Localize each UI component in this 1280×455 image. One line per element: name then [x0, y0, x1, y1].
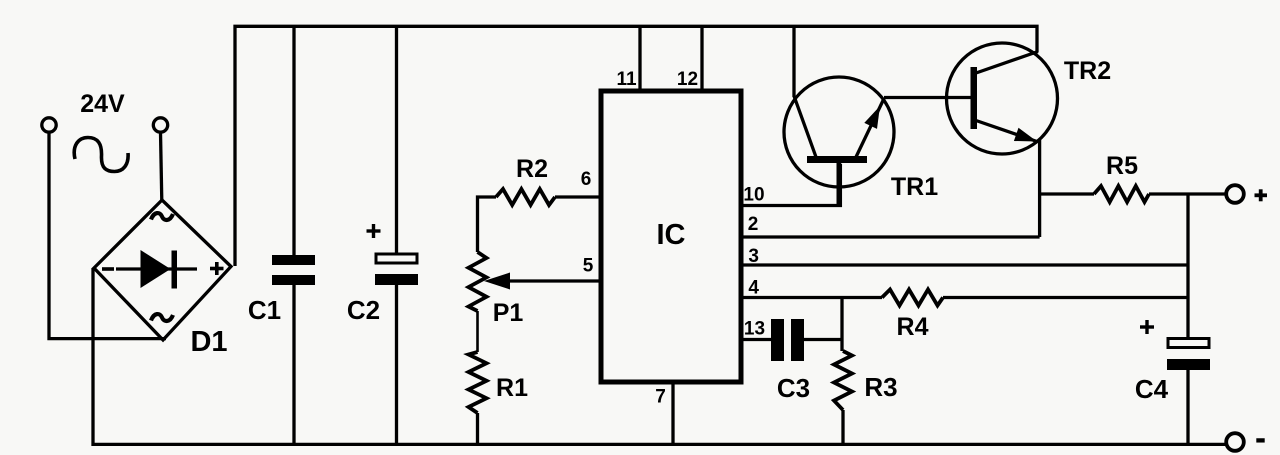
- svg-text:P1: P1: [493, 299, 524, 327]
- svg-text:R1: R1: [496, 374, 528, 402]
- svg-text:12: 12: [677, 69, 698, 90]
- svg-text:TR2: TR2: [1064, 57, 1111, 85]
- svg-text:11: 11: [616, 69, 637, 90]
- svg-text:R3: R3: [864, 372, 897, 402]
- svg-text:10: 10: [743, 185, 764, 206]
- svg-text:R5: R5: [1106, 152, 1138, 180]
- svg-text:R4: R4: [897, 313, 929, 341]
- svg-text:C2: C2: [347, 295, 380, 325]
- svg-text:4: 4: [748, 278, 759, 299]
- svg-text:TR1: TR1: [891, 173, 938, 201]
- svg-text:3: 3: [748, 246, 759, 267]
- svg-text:6: 6: [581, 169, 592, 190]
- svg-text:C1: C1: [248, 295, 281, 325]
- svg-text:5: 5: [583, 256, 594, 277]
- svg-text:C3: C3: [777, 373, 810, 403]
- svg-text:R2: R2: [516, 155, 548, 183]
- svg-text:IC: IC: [657, 219, 686, 251]
- svg-text:13: 13: [744, 319, 765, 340]
- svg-text:D1: D1: [190, 326, 227, 358]
- svg-text:C4: C4: [1135, 374, 1169, 404]
- svg-text:7: 7: [655, 387, 666, 408]
- svg-text:2: 2: [748, 214, 759, 235]
- svg-text:24V: 24V: [80, 90, 125, 118]
